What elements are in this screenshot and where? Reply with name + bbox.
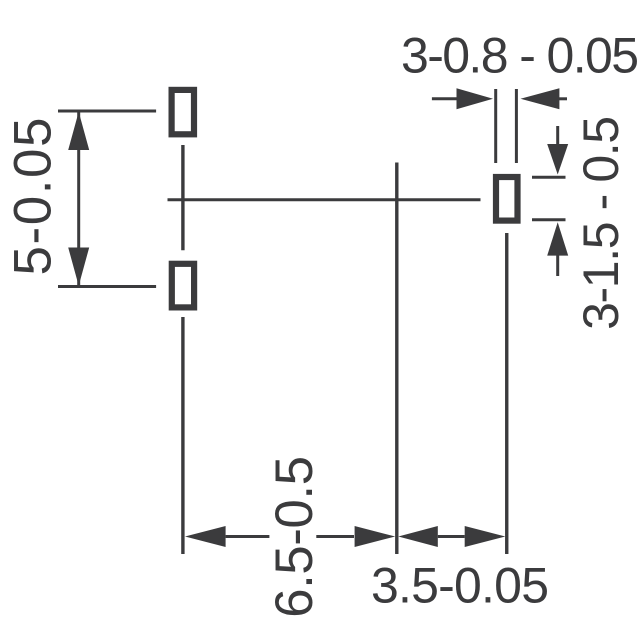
- dimension 6.5 left arrow: [185, 526, 269, 547]
- wire leader below pad P2: [181, 317, 184, 554]
- extension line lower-left: [58, 285, 156, 288]
- dimension 1.5 bottom arrow: [547, 222, 568, 276]
- wire leader between pad P1 and pad P2: [181, 145, 184, 250]
- extension line pad P3 right edge: [515, 89, 518, 163]
- dimension 3.5 left arrow: [398, 526, 464, 547]
- label 3-1.5 - 0.5: [573, 116, 629, 330]
- svg-text:5-0.05: 5-0.05: [3, 118, 62, 276]
- pad P1: [172, 90, 194, 134]
- svg-text:3.5-0.05: 3.5-0.05: [371, 558, 549, 614]
- dimension 6.5 right arrow: [316, 526, 395, 547]
- svg-text:6.5-0.5: 6.5-0.5: [265, 456, 324, 618]
- wire leader below pad P3: [505, 233, 508, 554]
- pad P3: [496, 177, 518, 221]
- dimension 5-0.05 vertical line: [68, 112, 89, 287]
- tick pad P3 bottom edge: [532, 218, 566, 221]
- extension line upper-left: [58, 110, 156, 113]
- pad P2: [172, 264, 194, 308]
- label 3-0.8 - 0.05: [401, 28, 639, 84]
- horizontal centerline: [168, 198, 481, 201]
- label 5-0.05: [3, 118, 62, 276]
- dimension 3.5 right arrow: [465, 526, 506, 547]
- label 3.5-0.05: [371, 558, 549, 614]
- vertical axis line: [395, 163, 398, 555]
- svg-text:3-0.8 - 0.05: 3-0.8 - 0.05: [401, 28, 639, 84]
- label 6.5-0.5: [265, 456, 324, 618]
- dimension 0.8 right arrow: [521, 88, 568, 109]
- svg-text:3-1.5 - 0.5: 3-1.5 - 0.5: [573, 116, 629, 330]
- tick pad P3 top edge: [532, 176, 566, 179]
- dimension 1.5 top arrow: [547, 126, 568, 175]
- extension line pad P3 left edge: [494, 89, 497, 163]
- dimension 0.8 left arrow: [432, 88, 493, 109]
